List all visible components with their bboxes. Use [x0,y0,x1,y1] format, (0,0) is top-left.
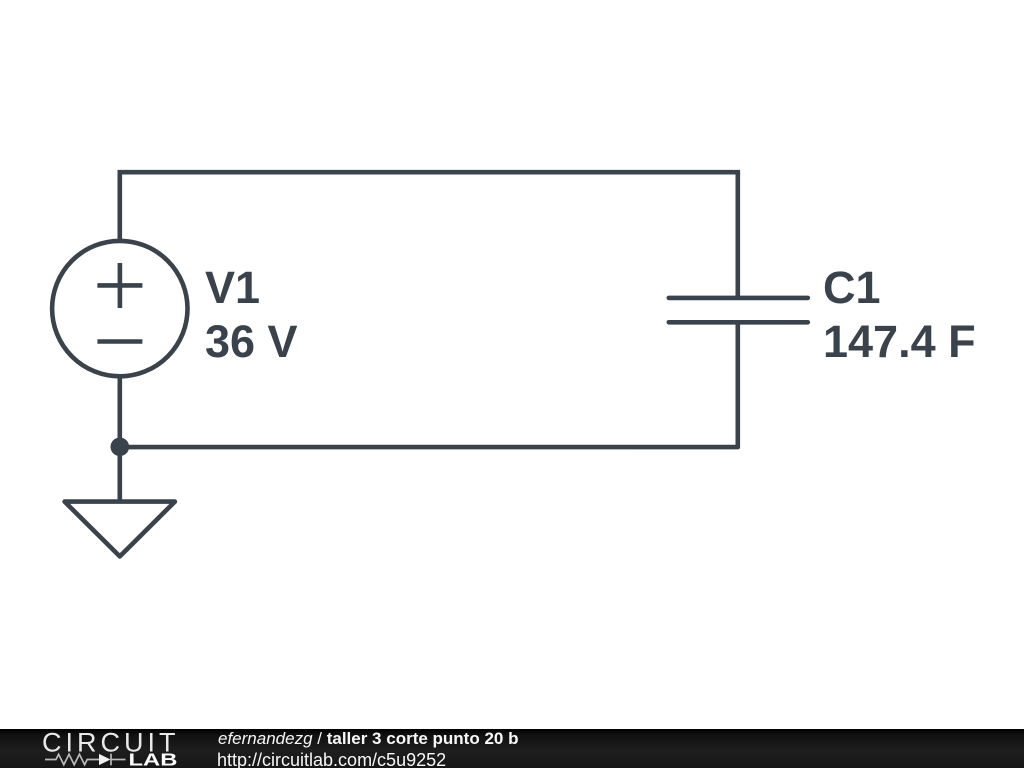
svg-text:36 V: 36 V [205,316,298,367]
voltage source V1 circle [52,241,187,376]
node junction dot [111,438,130,457]
logo resistor zigzag and wire [45,754,126,766]
wire top horizontal [120,170,738,175]
V1 minus sign [97,339,142,344]
svg-text:V1: V1 [205,262,260,313]
svg-text:LAB: LAB [129,750,178,768]
svg-text:C1: C1 [823,262,881,313]
capacitor C1 bottom plate [669,320,808,325]
wire C1 top lead [735,172,740,298]
ground symbol triangle [65,502,175,557]
wire V1 top lead [118,172,123,241]
CircuitLab logo [0,729,210,768]
footer line 2: url [217,751,446,768]
svg-text:147.4 F: 147.4 F [823,316,976,367]
capacitor C1 top plate [669,296,808,301]
wire ground stub [118,447,123,500]
wire bottom horizontal (ground net) [120,445,738,450]
wire V1 bottom lead [118,376,123,447]
logo diode triangle [99,754,111,765]
V1 plus sign [97,263,142,308]
footer bar [0,729,1024,768]
wire C1 bottom lead [735,322,740,447]
footer line 1: user / title [218,729,518,748]
